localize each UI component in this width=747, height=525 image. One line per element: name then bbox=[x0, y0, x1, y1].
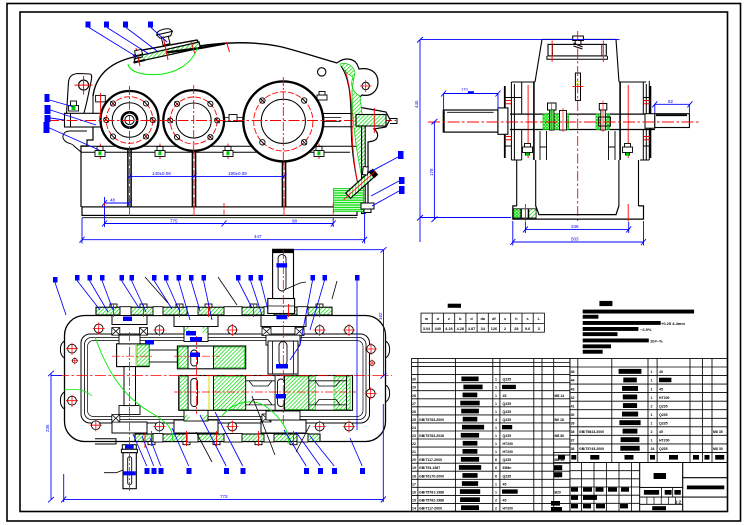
housing left wall upper bbox=[92, 96, 94, 113]
rib red centerlines bbox=[130, 150, 285, 211]
svg-text:3: 3 bbox=[538, 327, 540, 331]
svg-text:4.87: 4.87 bbox=[468, 327, 475, 331]
callout labels top (blue) bbox=[86, 22, 154, 28]
top split-line stud between C1-C2 bbox=[176, 115, 184, 122]
svg-text:236: 236 bbox=[45, 424, 50, 432]
BOM header row bbox=[554, 452, 728, 462]
right leg bbox=[619, 160, 639, 206]
top callout labels bbox=[53, 275, 360, 283]
svg-text:1: 1 bbox=[651, 421, 653, 425]
svg-text:z: z bbox=[448, 317, 450, 321]
svg-text:348: 348 bbox=[571, 224, 579, 229]
svg-text:Q235: Q235 bbox=[503, 458, 512, 462]
svg-text:16: 16 bbox=[412, 490, 416, 494]
svg-text:GB/T117-2000: GB/T117-2000 bbox=[419, 507, 442, 511]
flange bolt red centerlines bbox=[528, 85, 628, 158]
svg-text:178: 178 bbox=[429, 168, 434, 176]
right bell housing outer curve bbox=[337, 59, 390, 203]
right bearing flange column bbox=[640, 81, 650, 160]
left spacer bolt bbox=[560, 111, 567, 131]
inspection cover plate bbox=[548, 44, 606, 56]
svg-text:GB/T5782-1986: GB/T5782-1986 bbox=[419, 498, 444, 502]
oil pool block (green horizontal hatch) bbox=[334, 189, 364, 212]
svg-text:45: 45 bbox=[503, 394, 507, 398]
svg-text:39: 39 bbox=[571, 421, 575, 425]
svg-text:GB/T5783-2026: GB/T5783-2026 bbox=[419, 434, 444, 438]
cap bolt block above C1 bbox=[96, 95, 106, 102]
svg-text:1: 1 bbox=[651, 370, 653, 374]
bottom dimension 348 bbox=[523, 222, 631, 233]
top-left ear plate bbox=[67, 74, 92, 115]
svg-text:23: 23 bbox=[412, 434, 416, 438]
inner span dimension bbox=[127, 173, 287, 179]
green section splines bbox=[95, 337, 173, 442]
base profile bbox=[513, 206, 644, 219]
left bearing section (green) bbox=[543, 114, 569, 129]
svg-text:6: 6 bbox=[495, 466, 497, 470]
svg-text:9.6: 9.6 bbox=[525, 327, 530, 331]
left ear bulge bbox=[60, 341, 64, 409]
inspection cover assembly (tilted, green hatched) bbox=[133, 27, 230, 66]
right upper box bbox=[683, 463, 728, 478]
svg-text:6: 6 bbox=[495, 458, 497, 462]
housing base plate bbox=[82, 207, 357, 216]
svg-text:37: 37 bbox=[571, 439, 575, 443]
svg-text:40: 40 bbox=[571, 413, 575, 417]
svg-text:445: 445 bbox=[414, 100, 419, 108]
dimension 170 over left shaft bbox=[441, 91, 500, 113]
BOM left table grid bbox=[412, 359, 570, 512]
svg-text:28: 28 bbox=[412, 394, 416, 398]
svg-text:10#~%: 10#~% bbox=[650, 339, 663, 344]
bearing cap block bottom shaft1 bbox=[112, 422, 147, 433]
lower gear band bbox=[179, 376, 353, 411]
flange bolt holes top row bbox=[94, 324, 353, 334]
svg-text:24: 24 bbox=[412, 426, 416, 430]
bearing cover C2 bbox=[163, 85, 224, 156]
svg-text:1: 1 bbox=[495, 378, 497, 382]
svg-text:HT200: HT200 bbox=[503, 450, 514, 454]
svg-text:GB/T5781-1986: GB/T5781-1986 bbox=[419, 490, 444, 494]
svg-text:Q235: Q235 bbox=[659, 413, 668, 417]
housing bottom left step plate bbox=[95, 439, 116, 444]
svg-text:GB/T5783-2000: GB/T5783-2000 bbox=[419, 418, 444, 422]
svg-text:1: 1 bbox=[495, 394, 497, 398]
shaft3 upper body and input shaft bbox=[268, 341, 298, 374]
bearing X boxes top bbox=[112, 328, 304, 336]
svg-text:2: 2 bbox=[651, 404, 653, 408]
svg-text:43: 43 bbox=[571, 387, 575, 391]
support rib under C1 bbox=[128, 149, 131, 208]
bearing cap block bottom shaft2 bbox=[174, 420, 218, 433]
svg-text:2: 2 bbox=[651, 430, 653, 434]
left vertical dimension 236 bbox=[48, 371, 62, 503]
right wall nut upper bbox=[317, 92, 327, 101]
svg-text:GB/T117-2000: GB/T117-2000 bbox=[419, 458, 442, 462]
svg-text:19: 19 bbox=[412, 466, 416, 470]
svg-text:1: 1 bbox=[651, 413, 653, 417]
svg-text:45: 45 bbox=[659, 430, 663, 434]
svg-text:1: 1 bbox=[495, 386, 497, 390]
shaft horizontal centerline bbox=[428, 121, 700, 123]
title box bbox=[640, 463, 683, 488]
left shaft bbox=[498, 108, 508, 134]
red hash ticks left bbox=[505, 101, 511, 140]
svg-text:42: 42 bbox=[571, 396, 575, 400]
svg-text:B6 18: B6 18 bbox=[555, 418, 564, 422]
svg-text:30: 30 bbox=[412, 378, 416, 382]
svg-text:4.28: 4.28 bbox=[457, 327, 464, 331]
svg-text:+0.25 4.4mm: +0.25 4.4mm bbox=[661, 321, 685, 326]
bottom callout labels bbox=[145, 468, 366, 474]
shaft1 left step piece bbox=[149, 350, 177, 362]
bottom dimension 503 bbox=[510, 221, 646, 246]
svg-text:162: 162 bbox=[378, 312, 383, 320]
svg-text:17: 17 bbox=[412, 482, 416, 486]
svg-text:25: 25 bbox=[412, 418, 416, 422]
svg-text:1: 1 bbox=[495, 402, 497, 406]
svg-text:27: 27 bbox=[412, 402, 416, 406]
callout labels left (blue) bbox=[44, 94, 51, 133]
bottom box with blob bbox=[640, 504, 683, 511]
svg-text:1: 1 bbox=[651, 379, 653, 383]
housing horizontal waist lines bbox=[101, 118, 341, 122]
callout labels right (blue) bbox=[398, 151, 405, 194]
overall bottom dimension bbox=[80, 213, 368, 244]
housing top outline bbox=[93, 40, 337, 96]
bearing cover C3 bbox=[243, 77, 323, 166]
upper middle gear (shaft2 pinion) bbox=[177, 346, 245, 369]
svg-text:45: 45 bbox=[659, 370, 663, 374]
svg-text:15: 15 bbox=[412, 498, 416, 502]
svg-text:26: 26 bbox=[412, 410, 416, 414]
signature grid blobs bbox=[571, 487, 629, 508]
svg-text:170: 170 bbox=[461, 87, 468, 92]
svg-text:45: 45 bbox=[503, 482, 507, 486]
svg-text:1: 1 bbox=[495, 410, 497, 414]
flange nut 1 bbox=[95, 147, 105, 157]
bearing cap block top shaft1 bbox=[112, 316, 147, 325]
svg-text:6: 6 bbox=[495, 474, 497, 478]
flange bolt holes bottom row bbox=[91, 421, 353, 431]
flange nut 3 bbox=[223, 147, 233, 157]
BOM left table content bbox=[412, 378, 564, 511]
black leaders top bbox=[145, 175, 455, 305]
housing split flange lines bbox=[81, 146, 357, 152]
small dowel holes bbox=[72, 358, 374, 365]
shaft2 bottom bearing block bbox=[184, 406, 208, 421]
oil dipstick bbox=[575, 73, 580, 100]
svg-text:1: 1 bbox=[495, 450, 497, 454]
shaft3 bearing blocks bbox=[266, 335, 300, 345]
black leaders bottom bbox=[196, 396, 310, 462]
small cells row bbox=[640, 497, 683, 504]
svg-text:38: 38 bbox=[571, 430, 575, 434]
red horizontal centerline bbox=[58, 375, 392, 377]
svg-text:Q235: Q235 bbox=[503, 410, 512, 414]
svg-text:190±0.09: 190±0.09 bbox=[228, 171, 247, 176]
green section boundary at vent bbox=[128, 48, 198, 75]
svg-text:140±0.08: 140±0.08 bbox=[152, 171, 171, 176]
band interruptions bbox=[120, 307, 308, 316]
right middle box with drawing number bar bbox=[683, 478, 728, 497]
svg-text:22: 22 bbox=[412, 442, 416, 446]
right inner step bbox=[609, 131, 616, 160]
vertical dimension 178 bbox=[431, 119, 437, 222]
ear bolt hole bbox=[79, 80, 89, 90]
svg-text:775: 775 bbox=[170, 218, 178, 223]
bell green hatched crescent bbox=[340, 63, 362, 178]
svg-text:44: 44 bbox=[571, 379, 575, 383]
parameter table grid bbox=[421, 313, 544, 332]
svg-text:~2.5%: ~2.5% bbox=[640, 327, 652, 332]
dimension 82 over right shaft bbox=[652, 101, 692, 113]
oil-level small hole bbox=[318, 68, 326, 76]
left leg nut bbox=[523, 144, 533, 156]
svg-text:Q235: Q235 bbox=[503, 402, 512, 406]
support rib under C2 bbox=[192, 151, 195, 208]
svg-text:28: 28 bbox=[514, 327, 518, 331]
svg-text:503: 503 bbox=[571, 237, 579, 242]
breather plug bbox=[573, 36, 584, 41]
svg-text:45: 45 bbox=[659, 387, 663, 391]
svg-text:Q235: Q235 bbox=[503, 474, 512, 478]
top flange hatched band bbox=[96, 307, 332, 315]
nut on left ear bbox=[69, 101, 79, 111]
BOM right table content bbox=[571, 370, 723, 451]
svg-text:M8 30: M8 30 bbox=[713, 447, 723, 451]
body slope walls bbox=[511, 81, 646, 83]
red centerlines vertical bbox=[129, 332, 131, 492]
svg-text:2: 2 bbox=[495, 507, 497, 511]
svg-text:29: 29 bbox=[412, 386, 416, 390]
svg-text:1: 1 bbox=[651, 387, 653, 391]
red gear pitch lines bbox=[112, 356, 356, 392]
svg-text:45: 45 bbox=[503, 498, 507, 502]
svg-text:98: 98 bbox=[292, 218, 298, 223]
left bolt with head bbox=[548, 103, 557, 110]
svg-text:440: 440 bbox=[435, 327, 441, 331]
housing inner wall line 1 bbox=[81, 334, 370, 423]
right bolt with nut bbox=[599, 104, 607, 111]
bearing boss bar (hatched) bbox=[356, 115, 386, 127]
svg-text:M8 35: M8 35 bbox=[713, 430, 723, 434]
bottom flange hatched band bbox=[135, 434, 320, 442]
svg-text:3.04: 3.04 bbox=[423, 327, 431, 331]
shaft2 top bearing block bbox=[184, 327, 208, 342]
svg-text:Q235: Q235 bbox=[659, 447, 668, 451]
title block signature grid bbox=[570, 463, 640, 512]
svg-text:21: 21 bbox=[412, 450, 416, 454]
shaft band through body bbox=[510, 114, 655, 129]
bearing cap block top shaft3 bbox=[261, 316, 306, 327]
red bolt ticks across bottom band bbox=[145, 431, 294, 448]
red hash ticks right bbox=[644, 101, 650, 140]
right ear tab with hole bbox=[362, 82, 369, 89]
svg-text:1: 1 bbox=[651, 396, 653, 400]
svg-text:1:2: 1:2 bbox=[675, 499, 682, 504]
band top bolt tabs bbox=[110, 304, 323, 307]
svg-text:126: 126 bbox=[491, 327, 497, 331]
left inner step bbox=[540, 131, 547, 160]
svg-text:GB/T93-1987: GB/T93-1987 bbox=[419, 466, 440, 470]
svg-text:48: 48 bbox=[110, 198, 116, 203]
svg-text:1: 1 bbox=[651, 439, 653, 443]
right ear bulge bbox=[386, 341, 390, 402]
mid boxes row bbox=[640, 487, 683, 497]
middle bottom dimension bbox=[102, 206, 336, 227]
right leg nut bbox=[623, 144, 633, 156]
gear web profile left bbox=[246, 381, 275, 405]
technical requirements text bars bbox=[583, 310, 694, 354]
svg-text:M8 14: M8 14 bbox=[555, 394, 565, 398]
svg-text:HT200: HT200 bbox=[659, 439, 670, 443]
BOM right table grid bbox=[570, 359, 728, 453]
left hook notch bbox=[63, 131, 87, 152]
svg-text:20: 20 bbox=[412, 458, 416, 462]
housing outer flange outline bbox=[65, 316, 386, 442]
svg-text:1: 1 bbox=[495, 426, 497, 430]
bell vertical hatched wall bbox=[362, 126, 366, 214]
shaft3 hub keyway slot bbox=[278, 379, 285, 407]
housing inner wall line 2 bbox=[85, 338, 367, 420]
bearing cap block bottom shaft3 bbox=[261, 420, 306, 433]
svg-text:18: 18 bbox=[412, 474, 416, 478]
parameter table title bar bbox=[448, 304, 461, 308]
blue inner labels bbox=[123, 263, 288, 475]
bearing cap block top shaft2 bbox=[174, 316, 218, 327]
svg-text:B20: B20 bbox=[555, 490, 561, 494]
svg-text:1: 1 bbox=[495, 490, 497, 494]
svg-text:82: 82 bbox=[668, 99, 674, 104]
right shaft bbox=[645, 114, 655, 129]
flange nut 4 bbox=[314, 147, 324, 157]
svg-text:1: 1 bbox=[495, 482, 497, 486]
technical requirements title bar bbox=[599, 301, 612, 306]
gear block shaft1 bbox=[117, 344, 150, 367]
base bolt red lines bbox=[525, 204, 628, 222]
cover bolts red centerlines bbox=[552, 41, 603, 63]
svg-text:HT200: HT200 bbox=[503, 442, 514, 446]
svg-text:4.26: 4.26 bbox=[445, 327, 452, 331]
bell inner black arc bbox=[341, 66, 361, 196]
svg-text:Q235: Q235 bbox=[503, 418, 512, 422]
shaft stub into bell bbox=[323, 114, 353, 127]
svg-text:65Mn: 65Mn bbox=[503, 466, 512, 470]
right vertical dimension bbox=[294, 247, 387, 378]
bell spout tip bbox=[390, 119, 397, 124]
svg-text:GB/T6170-2000: GB/T6170-2000 bbox=[419, 474, 444, 478]
svg-text:Q235: Q235 bbox=[659, 404, 668, 408]
support rib under C3 bbox=[282, 162, 285, 208]
main horizontal centerline bbox=[48, 120, 396, 122]
parameter table cell texts bbox=[423, 317, 541, 331]
top callout leaders bbox=[55, 281, 357, 431]
svg-text:Q235: Q235 bbox=[659, 421, 668, 425]
top cap trapezoid bbox=[535, 39, 619, 82]
svg-text:M8 80: M8 80 bbox=[555, 434, 565, 438]
oil drain plug diagonal bbox=[336, 162, 379, 203]
left-of-grid small blobs bbox=[554, 465, 562, 470]
bearing X boxes bottom bbox=[112, 414, 271, 422]
svg-text:2: 2 bbox=[495, 498, 497, 502]
svg-text:34: 34 bbox=[651, 447, 655, 451]
svg-text:1: 1 bbox=[495, 434, 497, 438]
svg-text:HT200: HT200 bbox=[659, 396, 670, 400]
drain nut bbox=[361, 203, 374, 213]
svg-text:45: 45 bbox=[571, 370, 575, 374]
big vertical dimension 445 bbox=[417, 37, 620, 242]
right bearing section (green) bbox=[596, 114, 610, 129]
housing left wall lower bbox=[81, 127, 93, 207]
flange nut 2 bbox=[155, 147, 165, 157]
base foot pads (green) bbox=[513, 209, 521, 218]
bearing cover C1 bbox=[101, 86, 159, 154]
svg-text:s: s bbox=[527, 317, 529, 321]
right bottom box bbox=[683, 497, 728, 511]
ear bolt holes bbox=[68, 344, 376, 405]
svg-text:14: 14 bbox=[412, 507, 416, 511]
output shaft bottom bbox=[122, 445, 136, 450]
svg-text:HT200: HT200 bbox=[503, 507, 514, 511]
central vertical centerline bbox=[577, 31, 579, 222]
red bolt ticks across top band bbox=[114, 304, 320, 317]
svg-text:447: 447 bbox=[254, 234, 262, 239]
top split-line stud between C2-C3 bbox=[229, 115, 237, 122]
svg-text:Q235: Q235 bbox=[503, 434, 512, 438]
small left dimension bbox=[102, 197, 132, 207]
bottom callout leaders bbox=[133, 412, 362, 466]
svg-text:GB/T5843-2000: GB/T5843-2000 bbox=[579, 430, 604, 434]
shaft1 lower shaft body bbox=[124, 367, 136, 406]
svg-text:773: 773 bbox=[220, 494, 228, 499]
left input shaft bbox=[65, 113, 102, 127]
svg-text:36: 36 bbox=[571, 447, 575, 451]
red base tick marks bbox=[104, 198, 333, 216]
svg-text:GB/T5745-2000: GB/T5745-2000 bbox=[579, 447, 604, 451]
svg-text:41: 41 bbox=[571, 404, 575, 408]
svg-text:1: 1 bbox=[495, 442, 497, 446]
shaft1 bearing blocks bbox=[119, 335, 140, 344]
gear web profile right bbox=[309, 381, 347, 405]
bell red arc bbox=[345, 70, 359, 188]
left leg bbox=[517, 160, 536, 206]
left bearing flange column bbox=[505, 82, 522, 160]
svg-text:2: 2 bbox=[504, 327, 506, 331]
svg-text:Q235: Q235 bbox=[503, 378, 512, 382]
svg-text:4: 4 bbox=[495, 418, 497, 422]
bottom overall dimension 773 bbox=[61, 404, 386, 502]
